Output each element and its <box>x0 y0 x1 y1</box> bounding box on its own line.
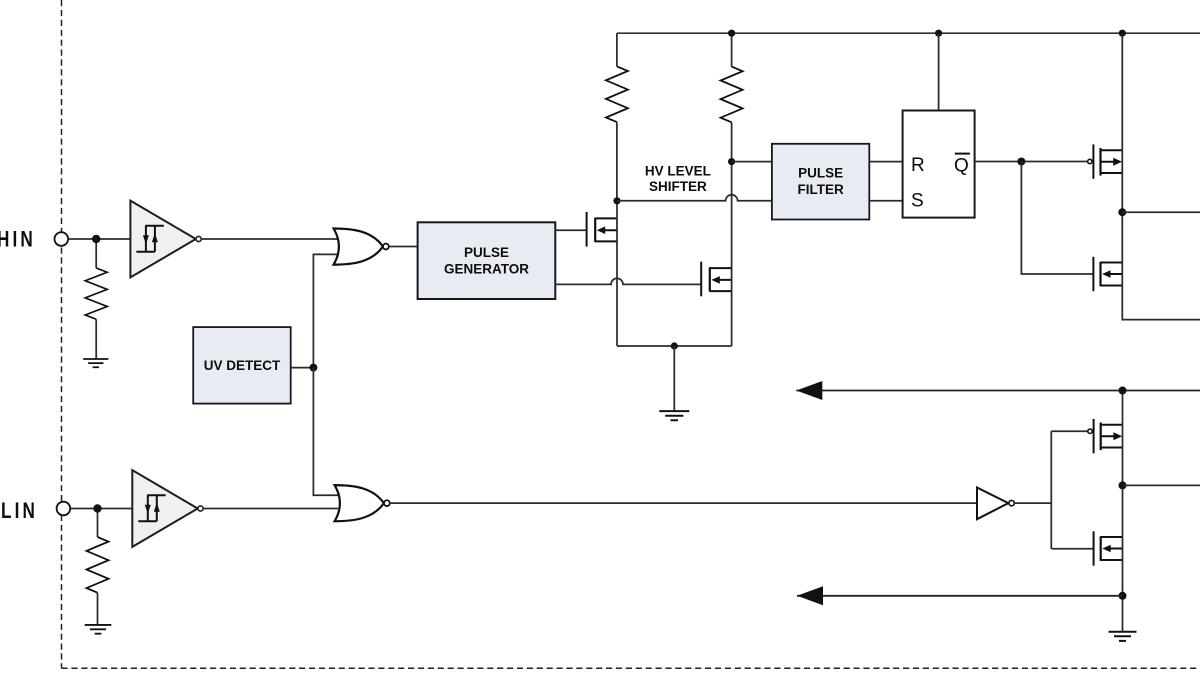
svg-text:Q: Q <box>954 156 969 177</box>
svg-text:R: R <box>911 155 925 176</box>
svg-text:S: S <box>911 191 924 212</box>
svg-text:HIN: HIN <box>0 227 36 252</box>
svg-text:SHIFTER: SHIFTER <box>649 179 707 194</box>
svg-text:FILTER: FILTER <box>797 182 843 197</box>
svg-text:PULSE: PULSE <box>798 166 843 181</box>
svg-text:LIN: LIN <box>1 499 38 524</box>
svg-text:UV DETECT: UV DETECT <box>204 358 281 373</box>
svg-text:PULSE: PULSE <box>464 245 509 260</box>
svg-text:GENERATOR: GENERATOR <box>444 262 529 277</box>
svg-text:HV LEVEL: HV LEVEL <box>645 163 711 178</box>
